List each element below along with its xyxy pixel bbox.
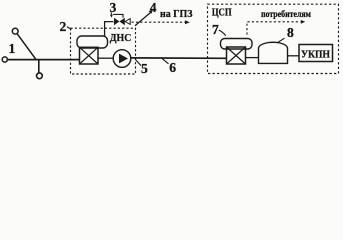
wire 6: DNS to CSP	[131, 57, 227, 59]
svg-text:3: 3	[110, 0, 117, 15]
wire: well flowline to DNS box	[8, 59, 80, 61]
separator vessel in DNS	[77, 36, 108, 48]
tank 8 (domed reservoir)	[259, 42, 288, 63]
node: lower terminal circle	[37, 73, 43, 79]
arrowhead to GPZ	[185, 20, 190, 24]
svg-text:УКПН: УКПН	[301, 50, 330, 61]
leader line 4 with arrow	[135, 10, 153, 26]
node: left terminal circle	[2, 57, 7, 62]
svg-text:на ГПЗ: на ГПЗ	[160, 8, 193, 20]
svg-text:1: 1	[9, 41, 16, 56]
valve 3 (bowtie)	[113, 14, 130, 25]
leader arrow from 3 down	[110, 12, 113, 17]
node: upper terminal circle of well 1	[12, 28, 18, 34]
dashed gas arrow to consumers	[247, 20, 305, 35]
svg-text:2: 2	[60, 19, 67, 34]
pipe riser from vessel to gas valve	[105, 22, 114, 37]
svg-text:7: 7	[212, 22, 219, 37]
background paper	[0, 0, 343, 84]
block UKPN	[299, 45, 333, 62]
wire: vertical drop to lower terminal	[38, 60, 40, 73]
treater block with X in DNS	[80, 47, 99, 64]
leader from 7	[219, 30, 226, 36]
separator vessel in CSP	[221, 39, 253, 50]
wire: treater to pump	[98, 57, 114, 59]
dashed boundary box DNS (item 2)	[71, 28, 136, 74]
dashed boundary box CSP	[208, 4, 339, 73]
wire: well switch diagonal	[17, 34, 36, 60]
svg-text:ЦСП: ЦСП	[212, 6, 232, 18]
svg-text:8: 8	[287, 25, 294, 40]
wire: treater to tank	[246, 57, 259, 59]
svg-text:5: 5	[141, 61, 148, 76]
svg-text:ДНС: ДНС	[110, 33, 132, 44]
wire: tank to UKPN	[288, 55, 300, 57]
leader from 8	[278, 38, 285, 42]
svg-text:6: 6	[169, 60, 176, 75]
leader from 2 to box corner	[67, 27, 72, 29]
treater block with X in CSP	[227, 47, 246, 64]
leader 5	[135, 59, 141, 65]
pump 5 (circle with triangle)	[113, 50, 131, 68]
leader 6	[162, 58, 169, 63]
svg-text:потребителям: потребителям	[261, 9, 311, 19]
svg-text:4: 4	[150, 0, 157, 15]
dashed gas line to GPZ	[132, 21, 186, 23]
